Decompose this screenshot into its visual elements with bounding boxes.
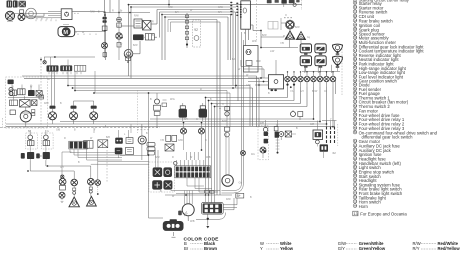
- fuse X mid: [165, 144, 174, 151]
- label box: [236, 151, 336, 199]
- pilot ring lamp: [26, 8, 37, 19]
- wire: [222, 32, 244, 193]
- svg-text:B/W: B/W: [295, 26, 300, 29]
- color code table: [184, 236, 461, 251]
- svg-text:W/B: W/B: [206, 156, 211, 159]
- wire icon drops: [302, 67, 340, 77]
- ignition switch lamp: [43, 61, 46, 64]
- ignition coil lamp: [281, 18, 295, 32]
- wire: [74, 150, 149, 198]
- svg-text:Br/W: Br/W: [312, 90, 318, 93]
- svg-text:Br: Br: [184, 246, 189, 251]
- svg-text:R: R: [172, 156, 174, 159]
- fan motor M: [58, 25, 75, 37]
- note For Europe and Oceania: [353, 211, 408, 216]
- wire: [317, 121, 336, 159]
- pin block rows: [174, 161, 211, 177]
- wire: [171, 191, 237, 229]
- wire loop left pair: [129, 5, 237, 79]
- svg-text:G/Y: G/Y: [60, 166, 65, 169]
- wire: [41, 56, 95, 127]
- flasher chain L: [26, 130, 38, 160]
- svg-text:Br: Br: [190, 156, 193, 159]
- wire: [261, 22, 298, 48]
- svg-text:Green/White: Green/White: [359, 241, 384, 246]
- boxes right of horn: [147, 143, 155, 155]
- main fuse X: [20, 100, 38, 107]
- indicator icon grid: [300, 44, 342, 68]
- meter assembly box: [269, 75, 284, 91]
- svg-text:R/W: R/W: [90, 11, 95, 14]
- tail lamp trio: [49, 101, 98, 124]
- connector dark: [8, 80, 14, 85]
- fuse with X: [145, 34, 154, 40]
- svg-text:Black: Black: [204, 241, 216, 246]
- coil 1: [326, 127, 328, 144]
- svg-text:Br: Br: [120, 10, 123, 13]
- wire: [119, 124, 202, 158]
- connector dark 2: [60, 65, 72, 71]
- wire: [165, 98, 232, 204]
- svg-text:Gy: Gy: [239, 181, 243, 185]
- svg-text:R: R: [112, 10, 114, 13]
- svg-text:G/W: G/W: [338, 241, 346, 246]
- gear pin block: [320, 144, 328, 151]
- wire bus lower: [0, 118, 160, 128]
- headlight bulb S: [18, 10, 25, 21]
- svg-text:Brown: Brown: [204, 246, 217, 251]
- connector boxes L: [115, 138, 134, 155]
- pin connector dark row: [69, 141, 88, 149]
- pilot lamp: [124, 50, 133, 59]
- gear motor: [316, 140, 320, 144]
- starter motor: [20, 111, 31, 122]
- svg-text:Br: Br: [28, 130, 31, 133]
- svg-text:R: R: [36, 18, 38, 21]
- fuel sender chain: [154, 93, 167, 128]
- magneto pin block: [201, 202, 223, 214]
- relay box: [134, 19, 142, 28]
- svg-text:B/W: B/W: [222, 120, 227, 123]
- socket bits: [73, 187, 93, 194]
- horn: [137, 124, 149, 160]
- svg-text:R/B: R/B: [260, 122, 264, 125]
- flasher chain R: [42, 130, 54, 160]
- tail/brake light 2: [88, 178, 95, 185]
- headlight R: [222, 175, 233, 186]
- wire: [336, 46, 343, 95]
- wire: [263, 120, 296, 158]
- svg-text:B/R: B/R: [106, 136, 110, 139]
- speed sensor dashed box: [193, 20, 201, 47]
- 4wd fuse: [285, 131, 291, 137]
- svg-text:B+: B+: [237, 194, 241, 198]
- svg-text:G: G: [46, 18, 48, 21]
- svg-text:Y/R: Y/R: [160, 139, 164, 142]
- svg-text:G/Y: G/Y: [338, 246, 345, 251]
- svg-text:W/R: W/R: [252, 40, 257, 43]
- tail/brake light 1: [71, 179, 78, 186]
- svg-text:B/W: B/W: [262, 34, 267, 37]
- svg-text:C1: C1: [251, 152, 255, 156]
- AC magneto: [178, 204, 194, 216]
- svg-text:M: M: [63, 30, 68, 36]
- svg-text:W: W: [260, 241, 264, 246]
- box pair: [166, 135, 177, 141]
- connector hatched: [74, 65, 85, 71]
- svg-text:Y/B: Y/B: [280, 42, 284, 45]
- wire: [39, 72, 55, 106]
- relay 2: [9, 87, 25, 95]
- svg-text:Horn: Horn: [359, 204, 369, 209]
- svg-text:Br: Br: [120, 43, 123, 46]
- svg-text:R: R: [64, 137, 66, 140]
- indicator bulb row: [285, 71, 336, 88]
- svg-text:13: 13: [354, 212, 358, 216]
- 4wd pin mid: [274, 127, 279, 154]
- CDI pin stubs: [230, 2, 238, 16]
- wire: [149, 93, 219, 218]
- wire: [8, 85, 44, 128]
- svg-text:G: G: [196, 118, 198, 121]
- top connectors: [267, 0, 302, 10]
- svg-text:O: O: [285, 14, 287, 17]
- connector dark 1: [47, 65, 59, 71]
- battery sm: [10, 110, 35, 116]
- connector row B: [84, 141, 93, 149]
- svg-text:G/W: G/W: [246, 84, 252, 87]
- svg-text:B/W: B/W: [133, 44, 138, 47]
- wire: [172, 232, 176, 237]
- relay 4: [36, 91, 42, 97]
- diode chain: [225, 107, 230, 117]
- brake lamp tri 2: [87, 196, 97, 206]
- svg-text:G/W: G/W: [218, 6, 224, 9]
- svg-text:W/B: W/B: [190, 220, 195, 223]
- wire bundle: [157, 7, 238, 195]
- coil dashed: [337, 124, 339, 146]
- 4wd switch: [260, 127, 268, 153]
- svg-text:Yellow: Yellow: [280, 246, 294, 251]
- speed sensor box: [61, 9, 79, 20]
- svg-text:L/W: L/W: [270, 50, 275, 53]
- headlight bulb 1: [181, 122, 187, 134]
- connector row C: [98, 140, 108, 148]
- wire bus mid: [22, 60, 259, 128]
- gear motor box: [313, 130, 323, 139]
- headlight bulb 2: [199, 122, 205, 134]
- fuse box with X: [19, 1, 27, 7]
- wire top bus: [129, 0, 303, 6]
- 4wd lamp: [279, 132, 284, 137]
- svg-text:G/W: G/W: [178, 139, 184, 142]
- dashed group boundary: [6, 77, 48, 128]
- magneto connector: [163, 219, 184, 231]
- relay 1: [10, 90, 16, 96]
- connector block: [7, 0, 18, 8]
- svg-text:92: 92: [194, 28, 198, 32]
- tail light stack: [59, 175, 66, 203]
- indicator triangle A: [285, 31, 295, 39]
- switch box 2: [149, 162, 175, 192]
- dashed wire: [137, 90, 139, 133]
- wire tick labels: [36, 20, 96, 36]
- connector sm dark: [21, 153, 40, 159]
- wire stubs: [125, 40, 331, 74]
- svg-text:B: B: [184, 241, 187, 246]
- svg-text:62: 62: [333, 151, 337, 155]
- wire color labels: [12, 6, 332, 223]
- rear brake switch chain: [185, 13, 188, 48]
- svg-text:White: White: [280, 241, 292, 246]
- svg-text:R/W: R/W: [168, 6, 173, 9]
- dashed boundary: [256, 0, 258, 40]
- svg-text:B/Y: B/Y: [175, 11, 179, 14]
- wire staircase: [6, 87, 333, 127]
- wire: [246, 25, 262, 48]
- coil 3: [334, 127, 336, 144]
- svg-text:R: R: [152, 21, 154, 24]
- connector dark: [133, 34, 144, 40]
- wire: [104, 0, 150, 13]
- svg-text:G/B: G/B: [56, 129, 61, 132]
- wire: [117, 24, 157, 61]
- legend parts list: [353, 0, 437, 209]
- svg-text:R: R: [40, 155, 42, 158]
- thermo small parts: [291, 110, 303, 120]
- CDI unit U1: [240, 1, 251, 29]
- switch box 1: [153, 167, 172, 177]
- wire: [30, 128, 125, 180]
- relay 3: [28, 90, 35, 96]
- svg-text:W/G: W/G: [170, 98, 175, 101]
- svg-text:B/W: B/W: [155, 156, 160, 159]
- svg-text:R/W: R/W: [134, 15, 139, 18]
- main switch chain R: [116, 12, 122, 60]
- svg-text:G/R: G/R: [310, 123, 315, 126]
- main fuse: [143, 21, 152, 31]
- coil 2: [330, 127, 332, 144]
- svg-text:Y: Y: [260, 246, 263, 251]
- 4wd dashed box: [258, 126, 269, 160]
- svg-text:Red/Yellow: Red/Yellow: [438, 246, 461, 251]
- ignition coil B: [199, 103, 207, 121]
- headlight bulb L: [5, 11, 14, 21]
- fuse row: [10, 100, 18, 106]
- svg-text:Red/White: Red/White: [438, 241, 459, 246]
- svg-text:R/W: R/W: [226, 198, 231, 201]
- svg-text:For Europe and Oceania: For Europe and Oceania: [360, 212, 407, 217]
- svg-text:R/W: R/W: [44, 102, 49, 105]
- wire: [15, 12, 106, 61]
- svg-text:R: R: [200, 88, 202, 91]
- svg-text:G: G: [47, 130, 49, 133]
- svg-text:R/W: R/W: [413, 241, 421, 246]
- wire: [241, 60, 276, 86]
- indicator triangle B: [297, 32, 306, 40]
- svg-text:R/W: R/W: [256, 60, 261, 63]
- 4wd relay boxes: [0, 0, 1, 1]
- ignition coil A: [179, 103, 187, 121]
- brake lamp tri 1: [69, 197, 79, 207]
- starter relay box: [244, 46, 259, 73]
- svg-text:Green/Yellow: Green/Yellow: [359, 246, 386, 251]
- tail/brake light 3: [95, 180, 101, 186]
- wire: [226, 91, 230, 175]
- svg-text:R/Y: R/Y: [218, 11, 222, 14]
- resistor chain: [224, 127, 229, 137]
- svg-text:R: R: [48, 78, 50, 81]
- svg-text:G/Y: G/Y: [300, 90, 305, 93]
- main switch chain L: [102, 12, 108, 58]
- resistor sm: [205, 190, 214, 193]
- svg-text:R/Y: R/Y: [413, 246, 420, 251]
- svg-text:R/Y: R/Y: [184, 118, 188, 121]
